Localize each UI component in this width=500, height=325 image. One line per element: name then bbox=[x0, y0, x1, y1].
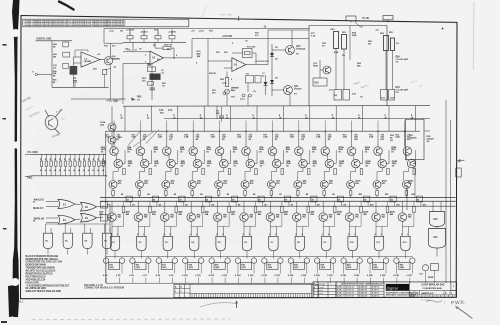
svg-text:5: 5 bbox=[295, 234, 296, 236]
svg-text:3: 3 bbox=[142, 275, 143, 277]
resistor R42 bbox=[63, 42, 69, 47]
wire input bbox=[123, 51, 150, 53]
bit cell 6 feed wire bbox=[256, 106, 258, 131]
bus tick cell 2 bbox=[156, 201, 158, 206]
svg-text:3: 3 bbox=[301, 275, 302, 277]
flip-flop box E11 bbox=[108, 262, 119, 269]
box C8 bbox=[246, 76, 254, 83]
ladder resistor R136 bbox=[69, 154, 71, 161]
svg-text:1%: 1% bbox=[368, 44, 371, 46]
svg-text:1%: 1% bbox=[365, 165, 368, 167]
svg-text:D-CS-12: D-CS-12 bbox=[346, 292, 355, 294]
svg-text:SHIELD 2: SHIELD 2 bbox=[33, 208, 44, 210]
svg-text:R69 2K: R69 2K bbox=[209, 73, 217, 75]
stray dot bbox=[442, 28, 444, 30]
svg-text:DS: DS bbox=[415, 292, 419, 295]
svg-text:9: 9 bbox=[249, 234, 250, 236]
svg-text:5: 5 bbox=[190, 234, 191, 236]
resistor R43 bbox=[175, 169, 178, 175]
wire cell 4 top drop bbox=[192, 131, 194, 147]
wire cell 12 upper feed bbox=[403, 121, 405, 132]
wire big gates bbox=[432, 201, 434, 211]
resistor R43 bbox=[63, 52, 70, 57]
bus junction box 11 bbox=[390, 196, 396, 202]
wire cell 11 upper feed bbox=[377, 121, 379, 132]
transistor Q3C bbox=[162, 181, 170, 189]
wire cell 1 bus drop bbox=[111, 201, 113, 213]
svg-text:P.S. GND: P.S. GND bbox=[28, 151, 38, 154]
svg-text:A9: A9 bbox=[332, 193, 334, 196]
transistor Q11A bbox=[374, 147, 383, 156]
mid double bus lower bbox=[100, 200, 456, 202]
revision block bbox=[313, 284, 336, 286]
svg-text:9: 9 bbox=[354, 234, 355, 236]
ladder resistor R142 bbox=[98, 154, 100, 161]
svg-text:3: 3 bbox=[327, 275, 328, 277]
punch hole middle bbox=[13, 141, 20, 148]
transistor Q1D bbox=[108, 213, 117, 222]
stub labels cell 4 bbox=[182, 275, 183, 277]
svg-text:1%: 1% bbox=[286, 165, 289, 167]
flip-flop cell 2 transistors bbox=[130, 258, 135, 263]
svg-text:7475: 7475 bbox=[241, 266, 245, 269]
stub labels cell 2 bbox=[129, 275, 130, 277]
gate pin labels cell 10 bbox=[348, 234, 349, 236]
stub labels cell 1 bbox=[103, 275, 104, 277]
svg-text:D5: D5 bbox=[238, 204, 240, 206]
svg-text:6.2K: 6.2K bbox=[311, 36, 316, 38]
svg-text:5: 5 bbox=[348, 234, 349, 236]
wire stubs cell 6 bbox=[238, 278, 240, 284]
or-gate E2b bbox=[81, 214, 97, 223]
wire cell 6 driver down bbox=[244, 189, 246, 191]
resistor R74 bbox=[201, 207, 204, 213]
wire cell 12 bus drop bbox=[401, 201, 403, 213]
wire cell 9 pair link bbox=[326, 154, 328, 161]
wire ff 2 outputs bbox=[131, 263, 133, 273]
svg-text:D7: D7 bbox=[291, 204, 293, 206]
wire cell 5 gate feeds bbox=[217, 221, 219, 236]
svg-text:D7: D7 bbox=[275, 139, 278, 141]
svg-text:A10: A10 bbox=[359, 193, 362, 196]
wire cell 7 upper feed bbox=[271, 121, 273, 132]
resistor R83 bbox=[391, 38, 395, 51]
flip-flop box E17 bbox=[267, 262, 278, 269]
wire cell 11 bus drop bbox=[375, 201, 377, 213]
transistor Q9C bbox=[320, 181, 328, 189]
svg-text:1%: 1% bbox=[128, 165, 131, 167]
second tier bus y118.6 bbox=[164, 118, 430, 120]
resistor R47 bbox=[281, 169, 284, 175]
label specks stage2 bbox=[125, 44, 269, 88]
stub labels cell 3 bbox=[156, 275, 157, 277]
svg-text:1%: 1% bbox=[391, 151, 394, 153]
bit cell 11 feed wire bbox=[388, 106, 390, 131]
bus tick cell 9 bbox=[341, 201, 343, 206]
gate pin labels cell 7 bbox=[269, 234, 270, 236]
wire bbox=[385, 51, 387, 90]
label +5 bbox=[114, 66, 116, 68]
wire cell 12 pair link bbox=[406, 154, 408, 161]
wire cell 6 bus drop bbox=[243, 201, 245, 213]
wire stubs cell 5 bbox=[211, 278, 213, 284]
svg-text:E31: E31 bbox=[434, 237, 439, 239]
transistor Q6D bbox=[240, 213, 249, 222]
wire stubs cell 8 bbox=[290, 278, 292, 284]
box A13 bbox=[389, 90, 395, 101]
wire cell 9 bus drop bbox=[322, 201, 324, 213]
gate pin labels cell 4 bbox=[190, 234, 191, 236]
svg-text:D9: D9 bbox=[344, 204, 346, 206]
wire cell 4 upper feed bbox=[192, 121, 194, 132]
trimmer R67 bbox=[225, 89, 230, 94]
resistor R53 bbox=[165, 191, 168, 196]
stub labels cell 7 bbox=[261, 275, 262, 277]
bus junction box 2 bbox=[152, 196, 158, 202]
drawing frame border bbox=[21, 16, 458, 299]
svg-text:7471: 7471 bbox=[136, 266, 140, 269]
transistor C10 bbox=[422, 265, 428, 271]
box right ff bbox=[431, 264, 439, 271]
wire stage3 in bbox=[208, 60, 232, 62]
svg-text:1%: 1% bbox=[154, 165, 157, 167]
transistor Q5C bbox=[215, 181, 223, 189]
svg-text:2N4258A: 2N4258A bbox=[296, 48, 306, 51]
wire cell 11 pair link bbox=[379, 154, 381, 161]
svg-text:D2: D2 bbox=[159, 204, 161, 206]
svg-text:7477: 7477 bbox=[294, 266, 298, 269]
connector right cell bbox=[311, 284, 313, 297]
transistor Q8D bbox=[293, 213, 302, 222]
wire cell 10 pair link bbox=[353, 154, 355, 161]
ladder resistor R140 bbox=[88, 154, 90, 161]
rail drops to resistor row bbox=[129, 29, 131, 36]
svg-text:750: 750 bbox=[144, 217, 147, 219]
bit cell 12 feed wire bbox=[414, 106, 416, 131]
resistor R81 bbox=[342, 35, 347, 50]
wire ff 3 outputs bbox=[158, 263, 160, 273]
wire gate out bbox=[108, 204, 111, 206]
wire ff 8 outputs bbox=[290, 263, 292, 273]
gate pin labels cell 5 bbox=[216, 234, 217, 236]
svg-text:1.2K: 1.2K bbox=[184, 137, 189, 139]
wire bbox=[320, 69, 323, 71]
gate D11 bbox=[374, 236, 383, 251]
left cell region boundary bbox=[105, 131, 107, 283]
transistor Q12A bbox=[403, 147, 412, 156]
wire stubs cell 9 bbox=[317, 278, 319, 284]
stub labels cell 9 bbox=[314, 275, 315, 277]
svg-text:1%: 1% bbox=[322, 46, 325, 48]
svg-text:1%: 1% bbox=[233, 165, 236, 167]
transistor Q9B bbox=[325, 159, 334, 168]
wire stubs cell 11 bbox=[370, 278, 372, 284]
wire cell 3 top drop bbox=[166, 131, 168, 147]
wire cell 3 pair link bbox=[168, 154, 170, 161]
resistor R78 bbox=[307, 207, 310, 213]
svg-text:20K: 20K bbox=[224, 52, 228, 54]
wire ff 12 outputs bbox=[395, 263, 397, 273]
wire cell 8 driver down bbox=[297, 189, 299, 191]
svg-text:1: 1 bbox=[175, 291, 176, 293]
svg-text:9: 9 bbox=[117, 234, 118, 236]
transistor Q10B bbox=[352, 159, 361, 168]
flip-flop box E18 bbox=[293, 262, 304, 269]
wire cell 10 gate feeds bbox=[349, 221, 351, 236]
ladder resistor R141 bbox=[93, 154, 95, 161]
wire cell 8 pair link bbox=[300, 154, 302, 161]
transistor Q10C bbox=[347, 181, 355, 189]
svg-text:1.2K: 1.2K bbox=[290, 137, 295, 139]
long vertical right margin 1 bbox=[445, 100, 447, 283]
svg-text:2N3009: 2N3009 bbox=[294, 89, 302, 91]
bus tick cell 1 bbox=[130, 201, 132, 206]
resistor R42 bbox=[149, 169, 152, 175]
svg-text:CONVERTER ASM: CONVERTER ASM bbox=[422, 287, 441, 290]
wire cell 11 driver down bbox=[376, 189, 378, 191]
ladder resistor R138 bbox=[79, 154, 81, 161]
resistor R52 bbox=[413, 169, 416, 175]
svg-text:1%: 1% bbox=[427, 141, 430, 143]
svg-text:SHIELD B TIED TO ANALOG GND: SHIELD B TIED TO ANALOG GND bbox=[26, 290, 62, 293]
svg-text:3: 3 bbox=[354, 275, 355, 277]
ladder bottom rail bbox=[32, 175, 106, 177]
resistor R76 bbox=[254, 207, 257, 213]
svg-text:C15: C15 bbox=[159, 110, 164, 112]
wire cell 3 upper feed bbox=[166, 121, 168, 132]
wire cell 2 driver down bbox=[138, 189, 140, 191]
svg-text:1%: 1% bbox=[342, 55, 345, 57]
ladder resistor R133 bbox=[55, 154, 57, 161]
vertical rail stage3 bbox=[207, 39, 209, 106]
bit cell 9 feed wire bbox=[335, 106, 337, 131]
wire cell 5 driver down bbox=[218, 189, 220, 191]
svg-text:B-AD-08: B-AD-08 bbox=[359, 295, 368, 298]
gate pin labels cell 6 bbox=[243, 234, 244, 236]
resistor R57 bbox=[270, 191, 273, 196]
transistor Q11C bbox=[373, 181, 381, 189]
wire cell 9 upper feed bbox=[324, 121, 326, 132]
svg-text:1%: 1% bbox=[206, 151, 209, 153]
svg-text:D8: D8 bbox=[317, 204, 319, 206]
bus tick cell 11 bbox=[394, 201, 396, 206]
svg-text:E30: E30 bbox=[434, 219, 439, 221]
wire gate feeds left bbox=[64, 224, 66, 233]
wire cell 11 top drop bbox=[377, 131, 379, 147]
svg-text:51: 51 bbox=[127, 199, 129, 201]
diode D1 bbox=[270, 53, 274, 57]
svg-text:D-CS-12: D-CS-12 bbox=[346, 296, 355, 298]
current source box outline bbox=[309, 25, 387, 27]
transistor Q3A bbox=[163, 147, 172, 156]
svg-text:750: 750 bbox=[223, 217, 226, 219]
svg-text:P27: P27 bbox=[408, 275, 411, 277]
svg-text:P20: P20 bbox=[316, 275, 319, 277]
pre-driver transistor QB bbox=[108, 136, 116, 144]
resistor R59 bbox=[323, 191, 326, 196]
svg-text:9: 9 bbox=[328, 234, 329, 236]
gate pin labels cell 9 bbox=[322, 234, 323, 236]
network below op-amp2 bbox=[148, 67, 156, 72]
diode D6 bbox=[264, 82, 268, 86]
transistor Q9D bbox=[319, 213, 328, 222]
gate pin labels cell 8 bbox=[295, 234, 296, 236]
wire stubs cell 4 bbox=[185, 278, 187, 284]
bit cell 4 feed wire bbox=[203, 106, 205, 131]
svg-text:3: 3 bbox=[248, 275, 249, 277]
svg-text:-15 R21: -15 R21 bbox=[140, 32, 148, 34]
svg-text:9: 9 bbox=[275, 234, 276, 236]
svg-text:A7: A7 bbox=[279, 193, 281, 196]
svg-text:7478: 7478 bbox=[321, 266, 325, 269]
wire ff 1 outputs bbox=[105, 263, 107, 273]
transistor Q5B bbox=[220, 159, 229, 168]
svg-text:9: 9 bbox=[302, 234, 303, 236]
wire cell 4 gate feeds bbox=[190, 221, 192, 236]
transistor Q9A bbox=[321, 147, 330, 156]
resistor R82 bbox=[413, 207, 416, 213]
test point TP2 bbox=[223, 92, 226, 95]
svg-text:7479: 7479 bbox=[347, 266, 351, 269]
wire gate 3 output bbox=[167, 251, 169, 259]
svg-text:1.2K: 1.2K bbox=[395, 137, 400, 139]
svg-text:60: 60 bbox=[364, 199, 366, 201]
bus junction box 7 bbox=[284, 196, 290, 202]
transistor Q4B bbox=[193, 159, 202, 168]
svg-text:1%: 1% bbox=[396, 43, 399, 45]
wire cell 1 pair link bbox=[115, 154, 117, 161]
svg-text:5%: 5% bbox=[396, 92, 399, 94]
flip-flop box E14 bbox=[188, 262, 199, 269]
flip-flop box E19 bbox=[320, 262, 331, 269]
flip-flop box E13 bbox=[161, 262, 172, 269]
svg-text:56: 56 bbox=[259, 199, 261, 201]
feedback wire stage1 bbox=[74, 50, 76, 57]
flip-flop cell 12 transistors bbox=[394, 258, 399, 263]
wire gate feeds left bbox=[84, 224, 86, 233]
bus junction box 5 bbox=[232, 196, 238, 202]
bus junction box 3 bbox=[179, 196, 185, 202]
wire gate 12 output bbox=[404, 251, 406, 259]
wire cell 3 bus drop bbox=[164, 201, 166, 213]
svg-text:A-ML-1: A-ML-1 bbox=[337, 285, 345, 288]
wire bbox=[247, 83, 249, 92]
svg-text:5: 5 bbox=[401, 234, 402, 236]
svg-text:12 BIT BIPOLAR DAC: 12 BIT BIPOLAR DAC bbox=[421, 283, 445, 286]
wire cell 9 driver down bbox=[323, 189, 325, 191]
gate pin labels cell 1 bbox=[111, 234, 112, 236]
transistor Q2D bbox=[134, 213, 143, 222]
svg-text:R71 20K: R71 20K bbox=[247, 47, 256, 49]
svg-text:D-CS-12: D-CS-12 bbox=[346, 289, 355, 291]
pencil diagonal line bottom right bbox=[456, 307, 473, 319]
wire cell 8 bus drop bbox=[296, 201, 298, 213]
bus tick cell 5 bbox=[235, 201, 237, 206]
big gate upper bbox=[430, 212, 445, 227]
long vertical right margin 2 bbox=[450, 120, 452, 283]
svg-text:1%: 1% bbox=[207, 165, 210, 167]
wire cell 8 top drop bbox=[298, 131, 300, 147]
svg-text:CONNECTOR MODULE & VERSION: CONNECTOR MODULE & VERSION bbox=[84, 287, 124, 290]
wire cell 2 top drop bbox=[139, 131, 141, 147]
svg-text:+COLOR OUT: +COLOR OUT bbox=[255, 61, 269, 63]
transistor Q6B bbox=[246, 159, 255, 168]
svg-text:D18: D18 bbox=[303, 183, 306, 185]
svg-text:C: C bbox=[445, 292, 447, 295]
svg-text:9: 9 bbox=[222, 234, 223, 236]
svg-text:D10: D10 bbox=[354, 139, 358, 141]
gate pin labels cell 12 bbox=[401, 234, 402, 236]
svg-text:1%: 1% bbox=[181, 165, 184, 167]
svg-text:62: 62 bbox=[417, 199, 419, 201]
svg-text:K-SP-4: K-SP-4 bbox=[372, 285, 379, 288]
wire cell 6 upper feed bbox=[245, 121, 247, 132]
wire cell 7 driver down bbox=[270, 189, 272, 191]
wire stubs cell 3 bbox=[158, 278, 160, 284]
svg-text:1%: 1% bbox=[233, 151, 236, 153]
svg-text:1%: 1% bbox=[260, 165, 263, 167]
flip-flop box E15 bbox=[214, 262, 225, 269]
bus tick cell 4 bbox=[209, 201, 211, 206]
pencil up arrow bottom bbox=[236, 302, 238, 309]
bit cell 7 feed wire bbox=[282, 106, 284, 131]
svg-text:ADJ: ADJ bbox=[231, 89, 235, 92]
svg-text:D-CS-12: D-CS-12 bbox=[346, 286, 355, 288]
wire cell 1 to driver bbox=[117, 168, 119, 172]
svg-text:9: 9 bbox=[170, 234, 171, 236]
svg-text:7472: 7472 bbox=[162, 266, 166, 269]
svg-text:A1: A1 bbox=[121, 193, 123, 196]
svg-text:7480: 7480 bbox=[373, 266, 377, 269]
op-amp U3 bbox=[232, 58, 246, 72]
svg-text:750: 750 bbox=[355, 217, 358, 219]
mid double bus upper bbox=[100, 197, 456, 199]
wire feedback bbox=[232, 52, 243, 54]
wire gate 1 output bbox=[114, 251, 116, 259]
svg-text:3: 3 bbox=[380, 275, 381, 277]
svg-text:2.2K: 2.2K bbox=[352, 35, 357, 37]
svg-text:10K: 10K bbox=[197, 56, 201, 58]
svg-text:D10: D10 bbox=[315, 83, 320, 85]
svg-text:1%: 1% bbox=[127, 151, 130, 153]
svg-text:750: 750 bbox=[250, 217, 253, 219]
svg-text:1%: 1% bbox=[259, 151, 262, 153]
wire Q80 emitter down bbox=[110, 69, 112, 100]
svg-text:1.2K: 1.2K bbox=[105, 137, 110, 139]
resistor R66 bbox=[225, 78, 228, 87]
wire cell 1 gate feeds bbox=[111, 221, 113, 236]
stub labels cell 6 bbox=[235, 275, 236, 277]
resistor R73 bbox=[175, 207, 178, 213]
svg-text:5: 5 bbox=[216, 234, 217, 236]
stub labels cell 8 bbox=[288, 275, 289, 277]
gate D12 bbox=[401, 236, 410, 251]
svg-text:R65: R65 bbox=[137, 97, 142, 99]
wire bbox=[272, 49, 286, 51]
wire stubs cell 10 bbox=[343, 278, 345, 284]
gate D2 bbox=[137, 236, 146, 251]
wire cell 8 to driver bbox=[302, 168, 304, 172]
wire cell 3 to driver bbox=[170, 168, 172, 172]
stage 1 rails bbox=[36, 40, 73, 42]
label specks midblock bbox=[275, 30, 399, 100]
svg-text:5: 5 bbox=[322, 234, 323, 236]
wire connector drop bbox=[355, 21, 363, 28]
svg-text:1%: 1% bbox=[162, 86, 165, 88]
transistor Q72 bbox=[323, 66, 331, 74]
general notes box bbox=[23, 19, 189, 27]
gate D9 bbox=[322, 236, 331, 251]
